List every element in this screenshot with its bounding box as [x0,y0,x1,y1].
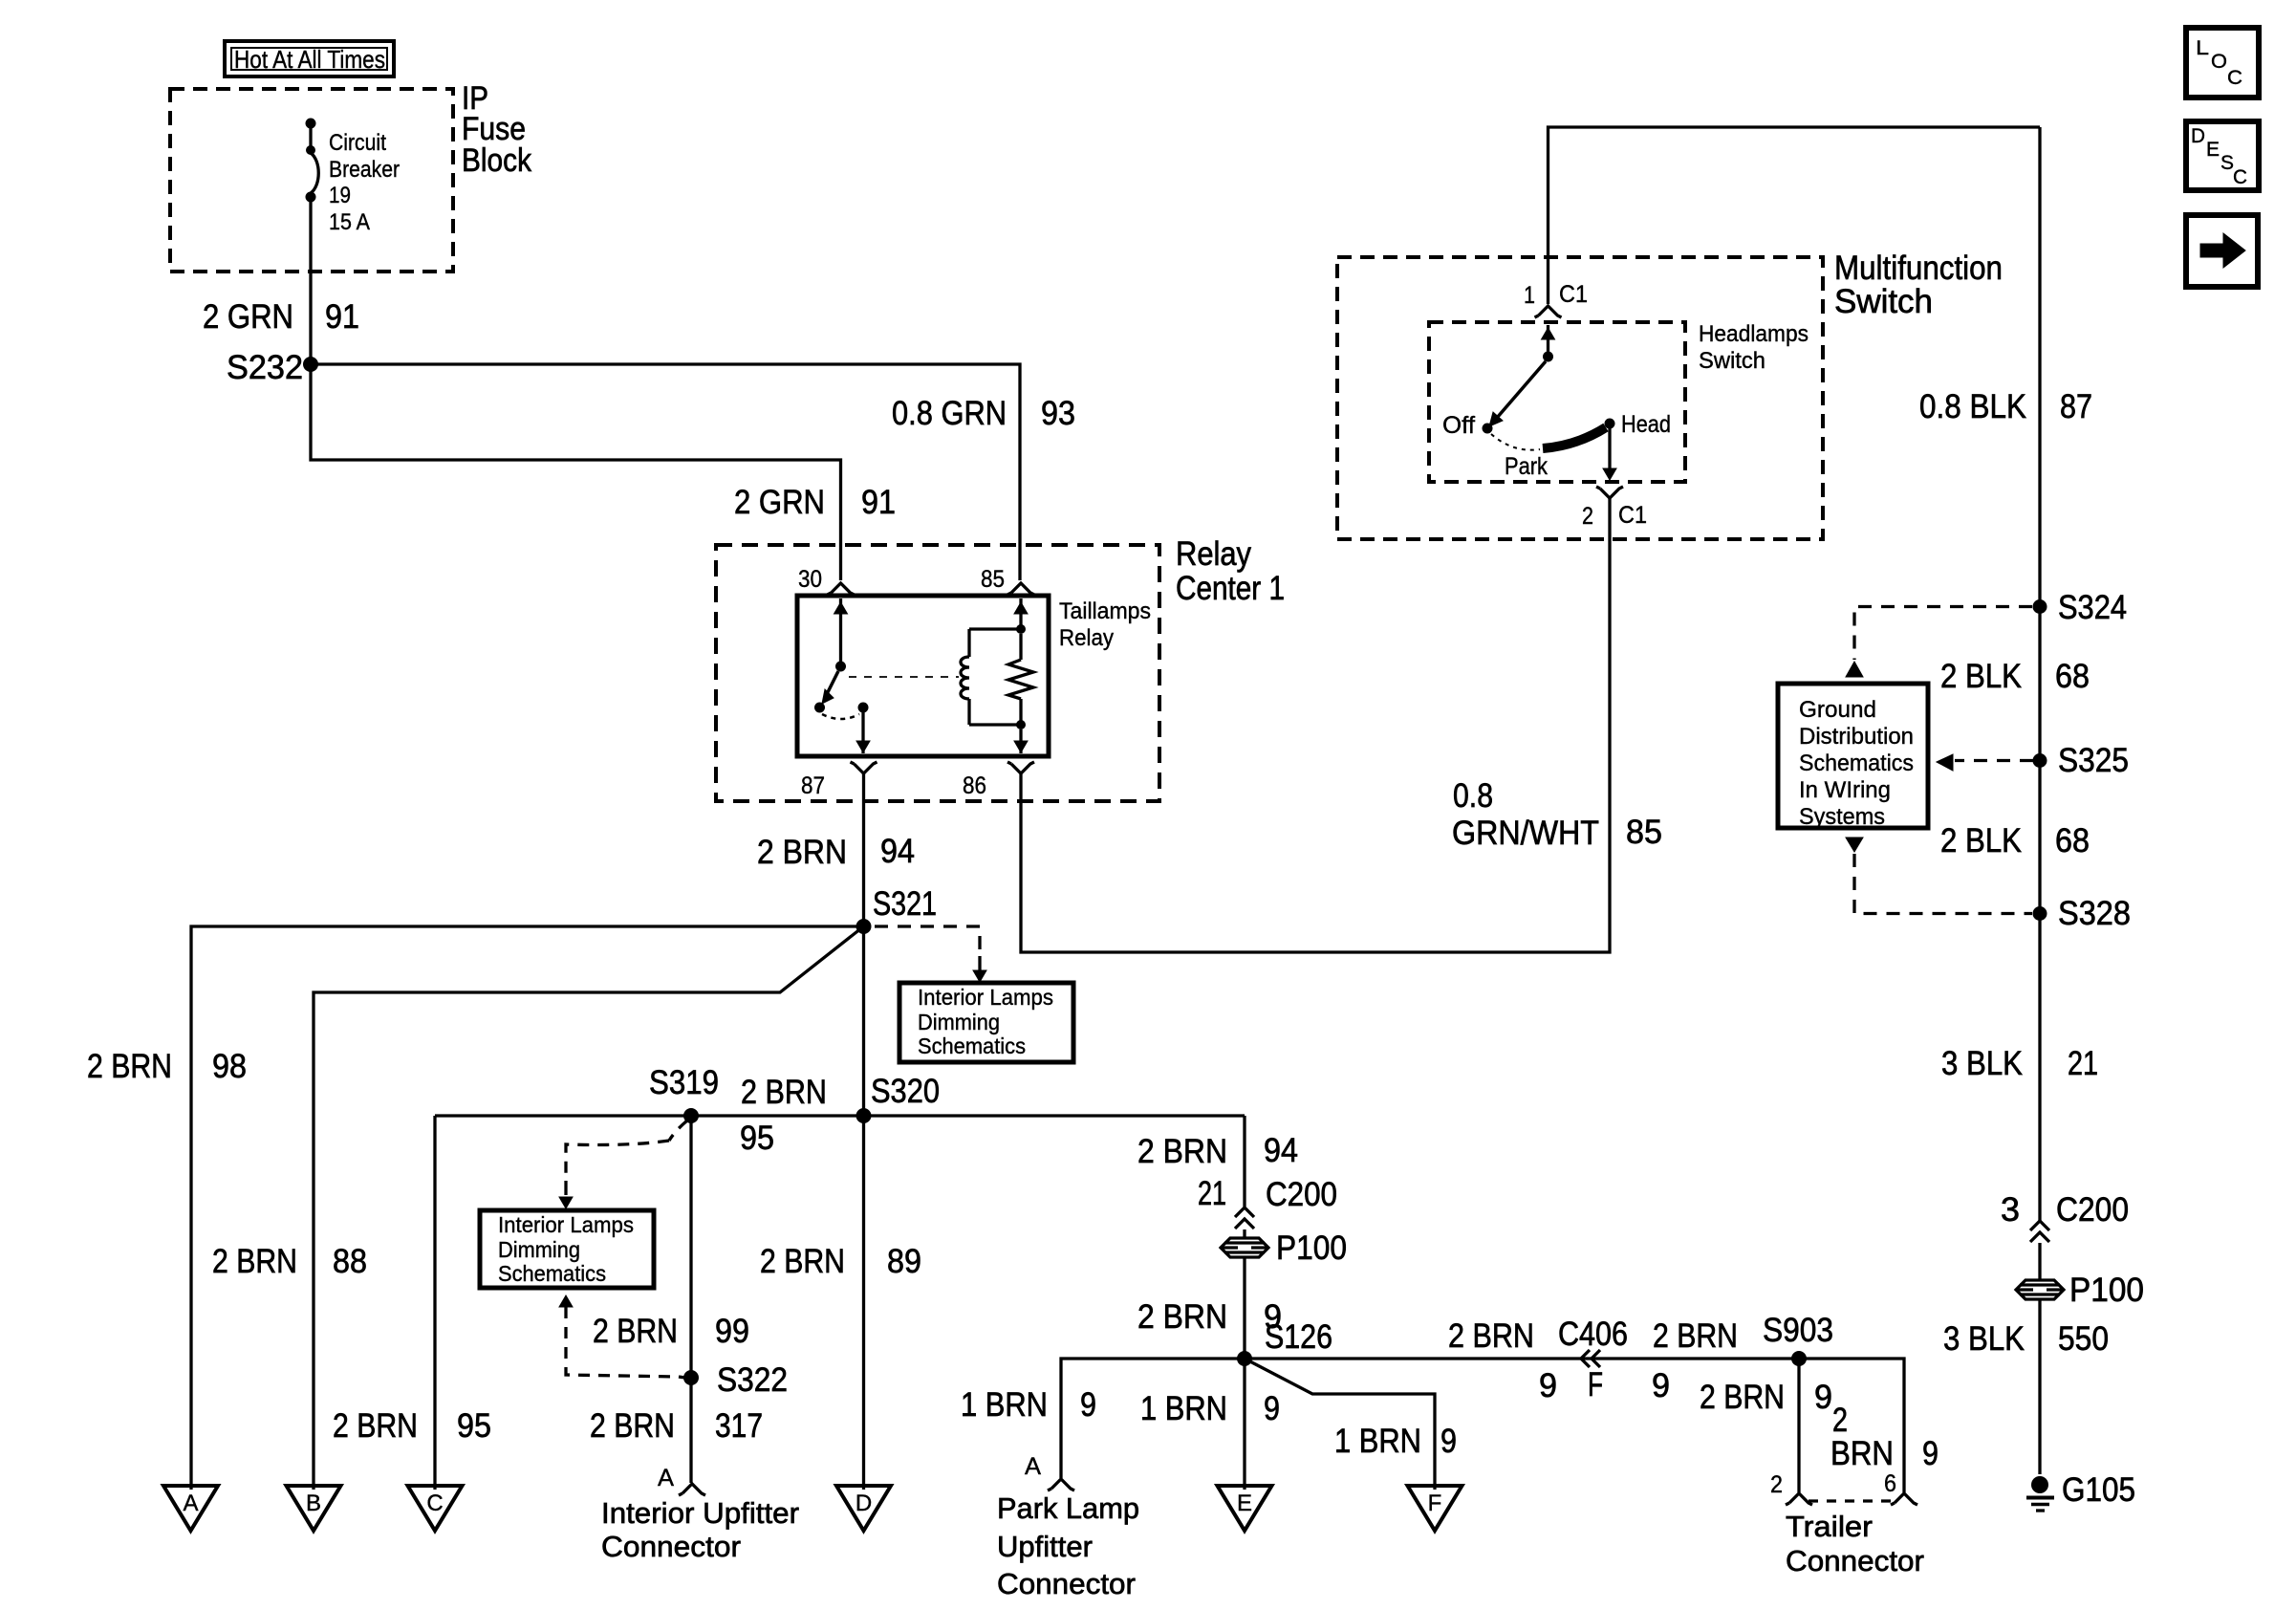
svg-text:19: 19 [329,183,351,208]
node S324 [2033,599,2047,614]
wire: breaker to S232 [309,200,312,364]
svg-text:2: 2 [1582,503,1593,530]
svg-text:Dimming: Dimming [918,1010,1000,1034]
svg-text:9: 9 [1539,1367,1557,1404]
svg-text:E: E [2206,139,2220,161]
grommet P100 (right) [2016,1280,2064,1299]
node S319 [683,1108,699,1123]
wire: Head to 2 C1 [1608,428,1611,473]
svg-text:Head: Head [1621,411,1671,438]
resistor (parallel with coil) [1019,634,1022,660]
svg-text:2 BRN: 2 BRN [87,1048,172,1085]
svg-text:21: 21 [2068,1045,2098,1082]
legend box DESC [2186,121,2259,190]
svg-text:9: 9 [1652,1367,1670,1404]
svg-text:1 BRN: 1 BRN [1334,1423,1421,1460]
svg-text:L: L [2196,37,2209,59]
wire: 87 contact to box bottom [861,712,864,753]
svg-text:Park: Park [1505,453,1548,480]
switch position Head [1605,419,1615,429]
svg-text:2 BRN: 2 BRN [590,1407,675,1445]
svg-text:A: A [183,1490,198,1516]
dashed arc Off to Park [1491,434,1540,450]
legend box LOC [2186,28,2259,98]
svg-text:1 BRN: 1 BRN [1140,1390,1227,1427]
mechanical link (dashed) relay armature to coil [849,676,959,678]
destination triangle C [408,1486,463,1531]
svg-text:Distribution: Distribution [1799,724,1914,750]
svg-text:0.8 GRN: 0.8 GRN [892,395,1007,432]
wire: S126 to connector F [1245,1359,1435,1490]
node S325 [2033,753,2047,768]
svg-text:93: 93 [1041,395,1075,432]
svg-text:Center 1: Center 1 [1176,570,1285,607]
legend box arrow [2186,215,2258,287]
wire: relay 87 to S321/S320 [862,773,865,1116]
svg-text:Circuit: Circuit [329,130,386,156]
wire: coil to box bottom (pin 86) [1019,729,1022,753]
svg-text:2: 2 [1770,1471,1783,1498]
svg-text:21: 21 [1198,1175,1226,1212]
destination triangle D [836,1486,891,1531]
wire: S320 to connector D [862,1116,865,1490]
svg-text:3 BLK: 3 BLK [1943,1320,2025,1358]
svg-text:Multifunction: Multifunction [1834,250,2003,287]
svg-text:2 BRN: 2 BRN [593,1313,678,1350]
wire: S126 to Park Lamp Upfitter connector A [1061,1359,1245,1478]
svg-text:550: 550 [2058,1320,2109,1358]
svg-text:87: 87 [801,772,825,799]
svg-text:2 BRN: 2 BRN [1653,1317,1738,1355]
wire: S320 to C200 (21) [1243,1116,1245,1207]
svg-text:A: A [1025,1453,1041,1480]
Headlamps Switch (dashed outline) [1429,322,1685,482]
svg-text:Interior Upfitter: Interior Upfitter [601,1496,799,1530]
svg-text:2 BRN: 2 BRN [741,1074,827,1111]
Multifunction Switch (dashed outline) [1337,257,1823,539]
wire: 1 C1 riser to right rail [1549,127,2041,304]
Taillamps Relay box [797,596,1049,756]
dashed wire: box to S322 (arrow up into box) [559,1295,573,1307]
svg-text:GRN/WHT: GRN/WHT [1452,815,1599,852]
svg-text:88: 88 [333,1243,367,1280]
svg-text:C1: C1 [1618,502,1647,529]
svg-text:94: 94 [880,833,915,870]
svg-text:9: 9 [1814,1379,1832,1416]
destination triangle B [287,1486,341,1531]
svg-text:85: 85 [1626,814,1662,851]
svg-text:95: 95 [457,1407,491,1445]
svg-text:C200: C200 [2056,1191,2129,1229]
headlamp switch wiper [1547,325,1549,352]
svg-text:1: 1 [1524,282,1535,309]
svg-text:0.8 BLK: 0.8 BLK [1919,388,2026,425]
node S328 [2033,906,2047,921]
svg-text:P100: P100 [2069,1272,2144,1309]
svg-text:S322: S322 [717,1361,788,1399]
wire: S321 to connector A [191,926,864,1490]
svg-text:68: 68 [2055,822,2090,859]
dashed wire: S325 to box (arrow points left) [1955,759,2033,762]
svg-text:S321: S321 [873,885,937,923]
destination triangle E [1218,1486,1272,1531]
svg-text:F: F [1428,1490,1442,1516]
svg-text:Schematics: Schematics [1799,751,1914,776]
wire: relay pin 86 to headlamps switch 2 C1 [1021,498,1610,952]
svg-text:D: D [2191,125,2205,147]
wire: branch to connector C [433,1116,436,1490]
svg-text:S319: S319 [649,1064,719,1101]
svg-text:Schematics: Schematics [918,1033,1026,1058]
node S322 [683,1370,699,1385]
node S232 [303,357,318,372]
svg-text:2 BRN: 2 BRN [1137,1133,1227,1170]
dashed wire: S319 to Interior Lamps Dimming Schematics (lower) [669,1120,687,1141]
relay coil branch (pin 85) [1019,598,1022,625]
svg-text:Park Lamp: Park Lamp [997,1491,1139,1525]
svg-text:2 GRN: 2 GRN [734,484,825,521]
svg-text:2 BLK: 2 BLK [1940,658,2022,695]
Ground Distribution Schematics box [1778,684,1928,828]
svg-text:2 BLK: 2 BLK [1940,822,2022,859]
node S320 [856,1108,872,1123]
svg-text:9: 9 [1922,1435,1939,1472]
svg-text:S325: S325 [2058,742,2129,779]
svg-text:91: 91 [325,298,359,336]
svg-text:Switch: Switch [1699,348,1765,374]
svg-text:C: C [2227,67,2242,89]
svg-text:3: 3 [2001,1191,2020,1229]
svg-text:Trailer: Trailer [1786,1510,1873,1543]
svg-text:C200: C200 [1266,1176,1337,1213]
svg-text:99: 99 [715,1313,749,1350]
svg-text:87: 87 [2060,388,2092,425]
dashed trailer connector bridge [1809,1499,1895,1502]
svg-text:2 BRN: 2 BRN [1700,1379,1785,1416]
wire: S321 to connector B [314,926,864,1490]
svg-text:15 A: 15 A [329,209,370,235]
svg-text:P100: P100 [1276,1229,1347,1267]
IP Fuse Block (dashed outline) [170,89,453,272]
svg-text:In WIring: In WIring [1799,777,1891,803]
svg-text:0.8: 0.8 [1453,777,1493,815]
svg-text:Upfitter: Upfitter [997,1530,1093,1563]
svg-text:6: 6 [1884,1470,1896,1497]
wire: S319 down through S322 to connector A (Interior Upfitter) [689,1116,692,1483]
svg-text:317: 317 [715,1407,763,1445]
wire: S126 to connector E [1243,1359,1245,1490]
circuit breaker 19 (15 A) [306,119,316,129]
svg-text:2 BRN: 2 BRN [212,1243,297,1280]
Interior Lamps Dimming Schematics box (lower) [480,1210,654,1288]
svg-text:9: 9 [1440,1423,1457,1460]
svg-text:94: 94 [1264,1132,1298,1169]
ground G105 [2031,1476,2048,1493]
svg-text:Block: Block [462,142,532,179]
svg-text:85: 85 [981,566,1005,593]
svg-text:Ground: Ground [1799,697,1876,723]
svg-text:Connector: Connector [601,1530,741,1563]
svg-text:S126: S126 [1265,1318,1332,1356]
svg-text:Switch: Switch [1834,283,1933,320]
svg-text:Dimming: Dimming [498,1237,580,1262]
wire: S232 to relay pin 30 [311,364,841,580]
svg-text:S: S [2220,152,2234,174]
Interior Lamps Dimming Schematics box (upper) [899,983,1073,1062]
svg-text:Schematics: Schematics [498,1261,606,1286]
destination triangle F [1408,1486,1462,1531]
switch position Off [1483,424,1493,434]
svg-text:A: A [658,1465,674,1491]
dashed wire: S324 to ground distribution schematics [1854,607,2032,661]
node S321 [856,919,872,934]
wire: S232 to relay pin 85 [311,364,1020,580]
svg-text:30: 30 [798,566,822,593]
grommet P100 (left) [1221,1238,1268,1257]
svg-text:S232: S232 [227,349,303,386]
svg-text:G105: G105 [2062,1471,2135,1509]
dashed travel arc of relay contact [822,714,859,719]
svg-text:86: 86 [963,772,986,799]
svg-text:E: E [1237,1490,1252,1516]
Relay Center 1 (dashed outline) [716,545,1159,801]
svg-text:95: 95 [740,1120,774,1157]
svg-text:D: D [856,1490,872,1516]
svg-text:S328: S328 [2058,895,2131,932]
svg-text:S324: S324 [2058,589,2127,626]
svg-text:F: F [1588,1366,1603,1403]
relay contact: open position [814,703,825,713]
svg-text:3 BLK: 3 BLK [1941,1045,2023,1082]
svg-text:9: 9 [1264,1390,1280,1427]
svg-text:2 BRN: 2 BRN [757,834,847,871]
wire: S319/S320 horizontal [435,1114,1245,1117]
svg-text:2: 2 [1832,1402,1848,1439]
svg-text:B: B [306,1490,321,1516]
svg-text:9: 9 [1080,1386,1096,1424]
svg-text:Connector: Connector [1786,1544,1924,1577]
relay contact arm (pin 30 side) [839,598,842,662]
dashed wire: box to S328 [1846,838,1863,852]
svg-text:C1: C1 [1559,281,1588,308]
relay contact: pin 87 stationary [858,703,869,713]
svg-text:2 BRN: 2 BRN [1448,1317,1534,1355]
svg-text:2 GRN: 2 GRN [203,298,293,336]
svg-text:Interior Lamps: Interior Lamps [918,985,1053,1010]
wire: S126 to S903 and trailer connector [1245,1359,1904,1492]
svg-text:C: C [2233,166,2247,188]
svg-text:Hot At All Times: Hot At All Times [234,45,385,74]
svg-text:S903: S903 [1763,1312,1833,1349]
svg-text:2 BRN: 2 BRN [333,1407,418,1445]
svg-text:89: 89 [887,1243,921,1280]
svg-text:98: 98 [212,1048,247,1085]
svg-text:BRN: BRN [1830,1435,1894,1472]
svg-text:Breaker: Breaker [329,157,400,183]
svg-text:68: 68 [2055,658,2090,695]
svg-text:S320: S320 [871,1073,940,1110]
svg-text:2 BRN: 2 BRN [1137,1298,1227,1336]
svg-text:1 BRN: 1 BRN [961,1386,1048,1424]
svg-text:C406: C406 [1558,1316,1628,1353]
wire: S903 to trailer pin 2 [1797,1359,1800,1492]
coil (inductor) [969,627,1021,630]
svg-text:O: O [2211,51,2227,73]
svg-text:2 BRN: 2 BRN [760,1243,845,1280]
svg-text:Systems: Systems [1799,804,1885,830]
svg-text:Interior Lamps: Interior Lamps [498,1212,634,1237]
svg-text:Relay: Relay [1059,625,1114,651]
destination triangle A [163,1486,218,1531]
wiper blade arc Park to Head (selected) [1543,427,1606,448]
svg-text:Connector: Connector [997,1567,1136,1600]
power source label "Hot At All Times" [225,41,394,76]
svg-text:Relay: Relay [1176,535,1251,573]
svg-text:91: 91 [861,484,896,521]
dashed wire: S321 to Interior Lamps Dimming Schematics (upper) [875,926,980,956]
svg-text:C: C [426,1490,443,1516]
svg-text:Headlamps: Headlamps [1699,321,1809,347]
svg-text:Off: Off [1442,412,1475,439]
svg-text:Taillamps: Taillamps [1059,598,1151,624]
wire: right rail 0.8 BLK 87 down to G105 [2038,127,2041,1221]
